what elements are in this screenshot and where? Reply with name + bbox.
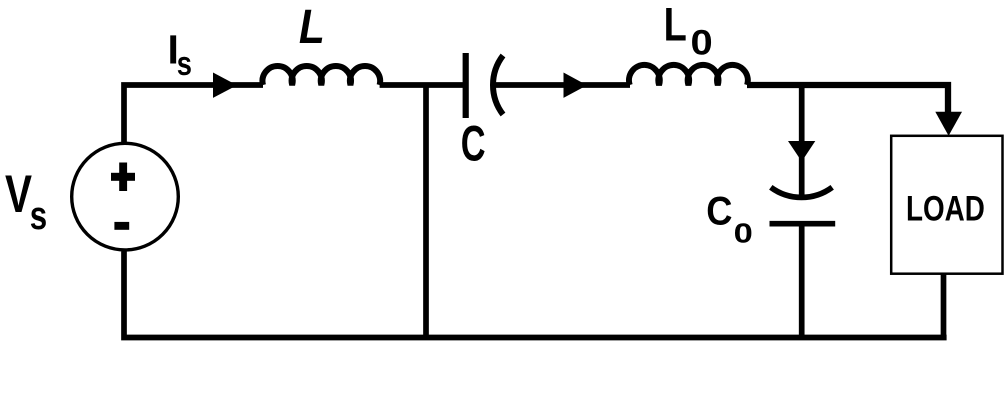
- arrow into load: [935, 112, 962, 136]
- minus terminal: [114, 222, 129, 230]
- label Vs: [5, 165, 47, 238]
- label Co: [706, 189, 753, 249]
- wire from C to inductor Lo: [493, 82, 630, 88]
- wire from Co to bottom rail: [799, 224, 805, 337]
- wire from L to capacitor C: [380, 82, 466, 88]
- wire from LOAD bottom to bottom rail: [941, 274, 947, 337]
- wire from Lo to top-right corner: [747, 85, 948, 113]
- wire from node B down to capacitor Co: [799, 85, 805, 197]
- svg-text:V: V: [5, 165, 32, 224]
- wire from source bottom along bottom rail: [124, 252, 947, 338]
- svg-text:s: s: [30, 194, 47, 238]
- svg-text:s: s: [177, 45, 192, 83]
- plus terminal: [111, 163, 135, 192]
- svg-text:L: L: [299, 0, 325, 54]
- label Is: [168, 26, 192, 83]
- arrow Is: [213, 73, 237, 98]
- svg-text:C: C: [461, 115, 486, 171]
- svg-text:0: 0: [691, 23, 713, 63]
- inductor L: [262, 66, 380, 85]
- arrow after C: [564, 73, 588, 98]
- capacitor C: [466, 53, 503, 118]
- label Lo: [664, 0, 713, 63]
- svg-text:LOAD: LOAD: [906, 190, 985, 229]
- svg-text:0: 0: [734, 217, 753, 248]
- svg-text:C: C: [706, 189, 732, 234]
- svg-text:L: L: [664, 0, 687, 50]
- capacitor Co: [770, 187, 836, 223]
- wire from source top to top rail: [124, 85, 263, 142]
- arrow to Co: [788, 141, 815, 162]
- inductor Lo: [629, 65, 748, 85]
- node A vertical wire to bottom rail: [423, 85, 429, 337]
- LOAD box: [891, 136, 1002, 274]
- voltage source Vs: [72, 143, 179, 250]
